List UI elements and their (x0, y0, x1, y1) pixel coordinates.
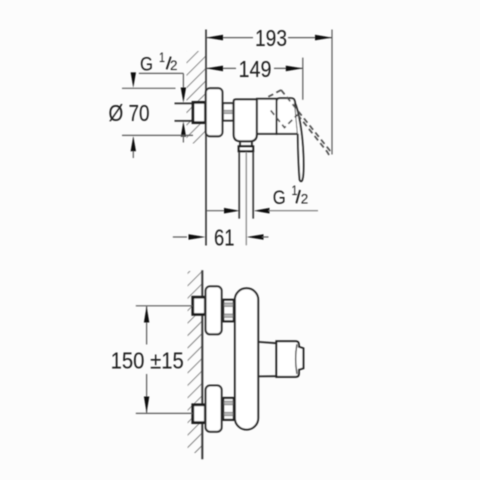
mixer body (234, 99, 257, 141)
outlet cap inner arc (296, 344, 297, 374)
hose centre line (245, 152, 247, 245)
dimension dia 70 (122, 87, 176, 89)
handle dome (277, 98, 298, 134)
dimension 150 +-15 (136, 305, 193, 307)
svg-text:193: 193 (255, 25, 287, 51)
upper connection nut (223, 300, 234, 322)
svg-text:G: G (140, 54, 153, 76)
wall hatch (top view) (187, 51, 206, 144)
dimension 149 (302, 58, 304, 100)
upper union nut (193, 297, 206, 314)
svg-text:2: 2 (301, 191, 309, 207)
dimension 61 (173, 236, 187, 238)
outlet cap (276, 341, 303, 377)
escutcheon (side) (206, 88, 223, 136)
svg-text:1: 1 (292, 182, 298, 198)
svg-text:G: G (273, 187, 286, 209)
svg-text:149: 149 (239, 56, 272, 82)
svg-text:61: 61 (214, 225, 235, 251)
thread nipple (223, 103, 233, 120)
supply pipe (175, 102, 194, 104)
lever (down position) (295, 103, 304, 182)
lower escutcheon (206, 386, 222, 432)
lower connection nut (223, 398, 234, 420)
wall hatch (front view) (188, 271, 202, 453)
cartridge ring (257, 99, 277, 134)
union nut in wall (193, 102, 205, 122)
wall face line (front view) (201, 270, 203, 459)
wall face line (top view) (205, 30, 207, 246)
svg-text:Ø 70: Ø 70 (109, 100, 150, 126)
hose stub (238, 152, 240, 219)
svg-text:2: 2 (170, 57, 178, 73)
outlet neck (front) (258, 342, 276, 377)
lever raised (dashed phantom) (268, 90, 281, 97)
lower union nut (193, 405, 206, 423)
upper escutcheon (206, 286, 222, 334)
outlet neck (239, 141, 241, 146)
svg-text:1: 1 (159, 49, 165, 65)
outlet collar (239, 146, 253, 151)
svg-text:150 ±15: 150 ±15 (111, 347, 184, 373)
dimension 193 (331, 30, 333, 155)
body capsule (235, 288, 258, 429)
